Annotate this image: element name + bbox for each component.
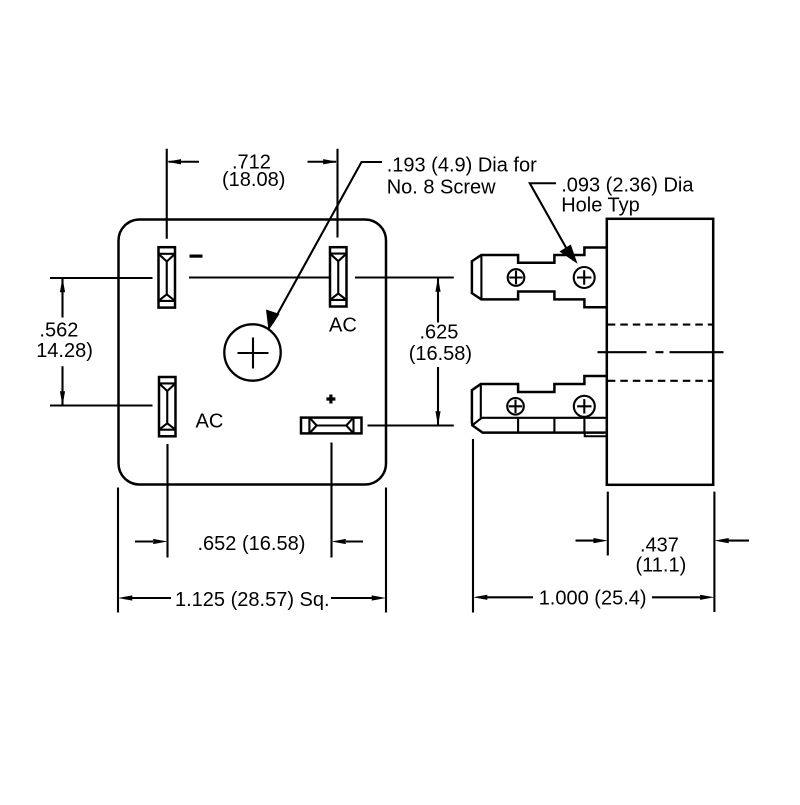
svg-text:.093 (2.36) Dia: .093 (2.36) Dia — [561, 174, 694, 196]
side view bottom terminal outline — [472, 376, 607, 436]
leader to mounting hole (.193 screw note) — [273, 162, 383, 323]
side view hidden line upper — [608, 324, 713, 326]
svg-text:.562: .562 — [39, 319, 78, 341]
svg-text:1.000 (25.4): 1.000 (25.4) — [539, 587, 647, 609]
svg-text:Hole Typ: Hole Typ — [561, 194, 640, 216]
dimension .437 extension lines — [608, 492, 715, 612]
terminal plus (bottom horizontal quick-connect tab, front view) — [301, 418, 362, 434]
svg-text:.437: .437 — [640, 534, 679, 556]
svg-text:No. 8 Screw: No. 8 Screw — [387, 177, 496, 199]
dimension .625 line and arrows — [437, 279, 439, 425]
svg-text:.193 (4.9) Dia for: .193 (4.9) Dia for — [387, 154, 537, 176]
svg-text:(16.58): (16.58) — [409, 343, 472, 365]
terminal minus (top-left quick-connect tab, front view) — [159, 247, 176, 307]
mounting hole cross — [238, 338, 269, 369]
side view bottom terminal right hole — [574, 396, 595, 417]
side view bottom terminal left hole — [507, 398, 524, 415]
svg-text:1.125 (28.57) Sq.: 1.125 (28.57) Sq. — [175, 589, 330, 611]
dimension .712 line and arrows — [169, 161, 337, 163]
svg-text:(18.08): (18.08) — [222, 169, 285, 191]
dimension .712 extension lines — [167, 149, 338, 239]
mounting hole circle — [224, 324, 280, 380]
dimension .652 extension lines — [168, 443, 332, 558]
svg-text:AC: AC — [329, 315, 357, 337]
front view package body outline — [119, 220, 387, 485]
side view hidden line lower — [608, 380, 713, 382]
leader to terminal hole (.093 note) — [530, 183, 573, 260]
dimension .437 line and arrows (outside) — [576, 540, 750, 542]
side view center line — [598, 351, 724, 353]
svg-text:AC: AC — [196, 411, 224, 433]
minus label — [190, 255, 203, 258]
side view top terminal outline — [472, 248, 607, 308]
svg-text:14.28): 14.28) — [36, 340, 93, 362]
terminal AC (top-right quick-connect tab, front view) — [330, 247, 347, 306]
svg-text:.625: .625 — [420, 322, 459, 344]
svg-text:(11.1): (11.1) — [636, 554, 687, 576]
dimension .562 extension lines — [50, 278, 153, 406]
plus label — [326, 395, 335, 404]
terminal row extension line segment between tabs — [189, 276, 330, 278]
dimension 1.125 line and arrows — [132, 597, 372, 599]
dimension .625 extension lines — [355, 278, 454, 426]
dimension .652 line and arrows (outside) — [135, 540, 363, 542]
side view top terminal left hole — [508, 269, 525, 286]
dimension 1.000 line and arrows — [487, 596, 701, 598]
dimension 1.000 extension line — [472, 439, 474, 613]
dimension 1.125 extension lines — [118, 488, 386, 613]
dimension .562 line and arrows — [61, 279, 63, 405]
side view top terminal right hole — [574, 267, 595, 288]
svg-text:.652 (16.58): .652 (16.58) — [198, 533, 306, 555]
terminal AC (bottom-left quick-connect tab, front view) — [159, 377, 176, 436]
side view body outline — [607, 219, 713, 485]
